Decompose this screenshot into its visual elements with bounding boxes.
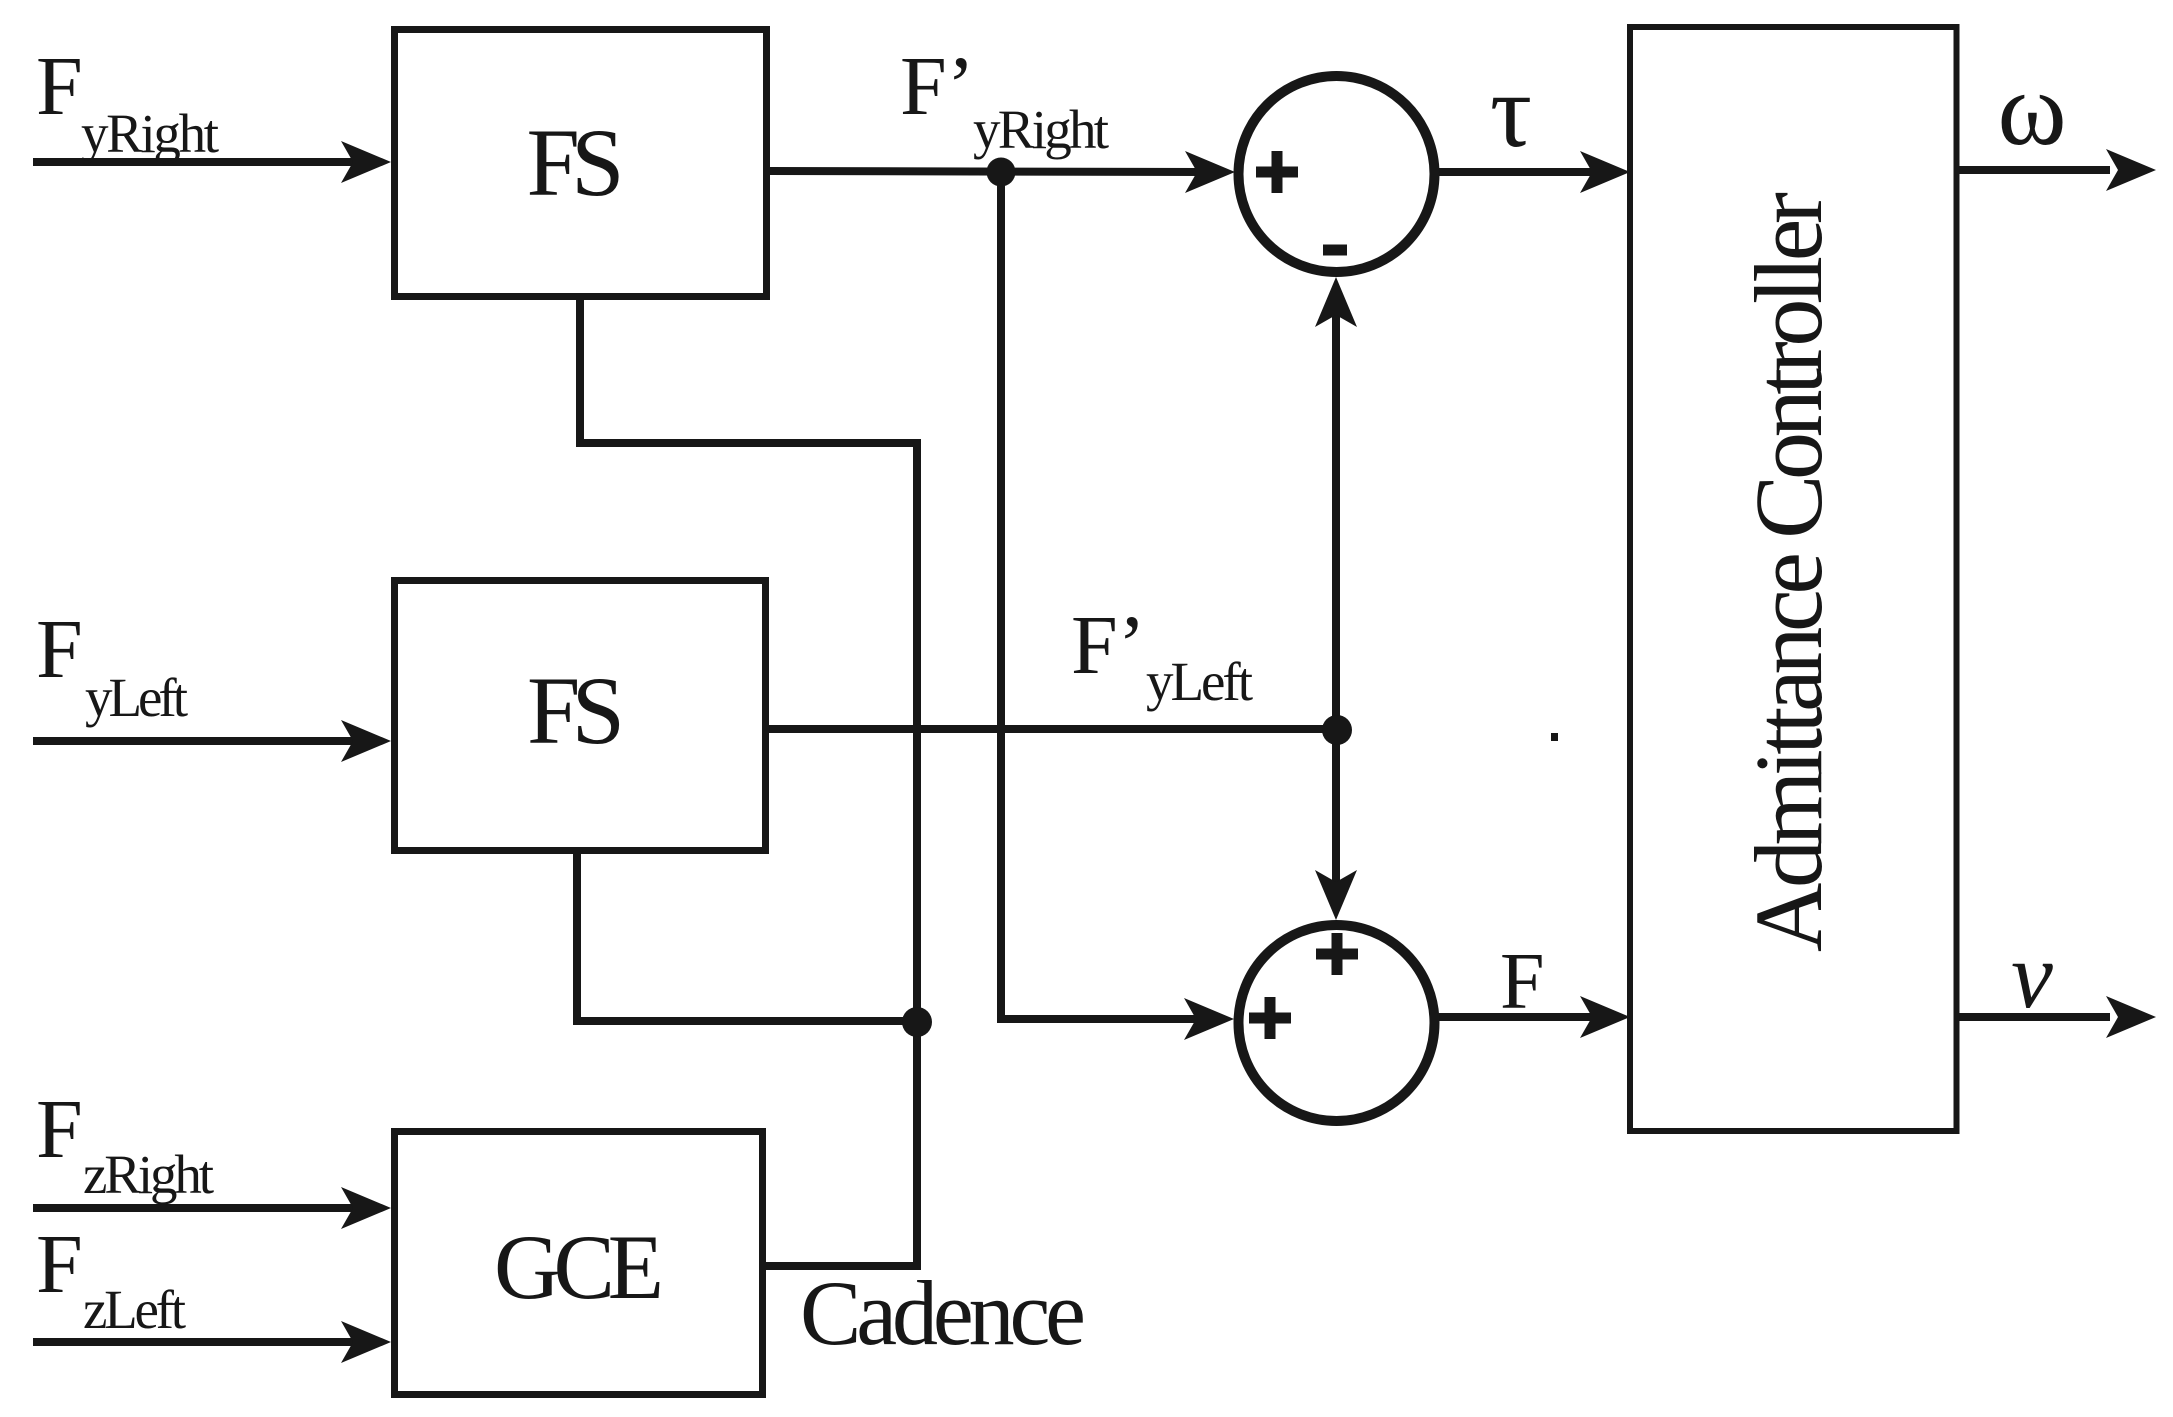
- svg-text:GCE: GCE: [494, 1216, 664, 1318]
- svg-text:ω: ω: [1997, 50, 2066, 167]
- svg-text:F’: F’: [1071, 599, 1146, 692]
- svg-text:τ: τ: [1490, 52, 1532, 169]
- svg-text:F: F: [1500, 938, 1545, 1026]
- svg-text:Cadence: Cadence: [800, 1262, 1086, 1364]
- svg-text:F: F: [36, 1083, 83, 1176]
- svg-text:yLeft: yLeft: [85, 667, 188, 728]
- svg-text:F’: F’: [900, 40, 975, 133]
- svg-text:F: F: [36, 1218, 83, 1311]
- svg-text:zLeft: zLeft: [83, 1279, 186, 1340]
- svg-text:zRight: zRight: [83, 1144, 214, 1205]
- svg-text:yRight: yRight: [973, 99, 1109, 160]
- svg-text:yLeft: yLeft: [1146, 651, 1253, 712]
- svg-text:v: v: [2011, 924, 2053, 1028]
- svg-text:Admittance Controller: Admittance Controller: [1735, 192, 1842, 952]
- svg-text:F: F: [36, 603, 83, 696]
- svg-text:yRight: yRight: [81, 103, 219, 164]
- svg-text:FS: FS: [527, 109, 625, 216]
- svg-text:FS: FS: [527, 657, 625, 764]
- svg-text:F: F: [36, 40, 83, 133]
